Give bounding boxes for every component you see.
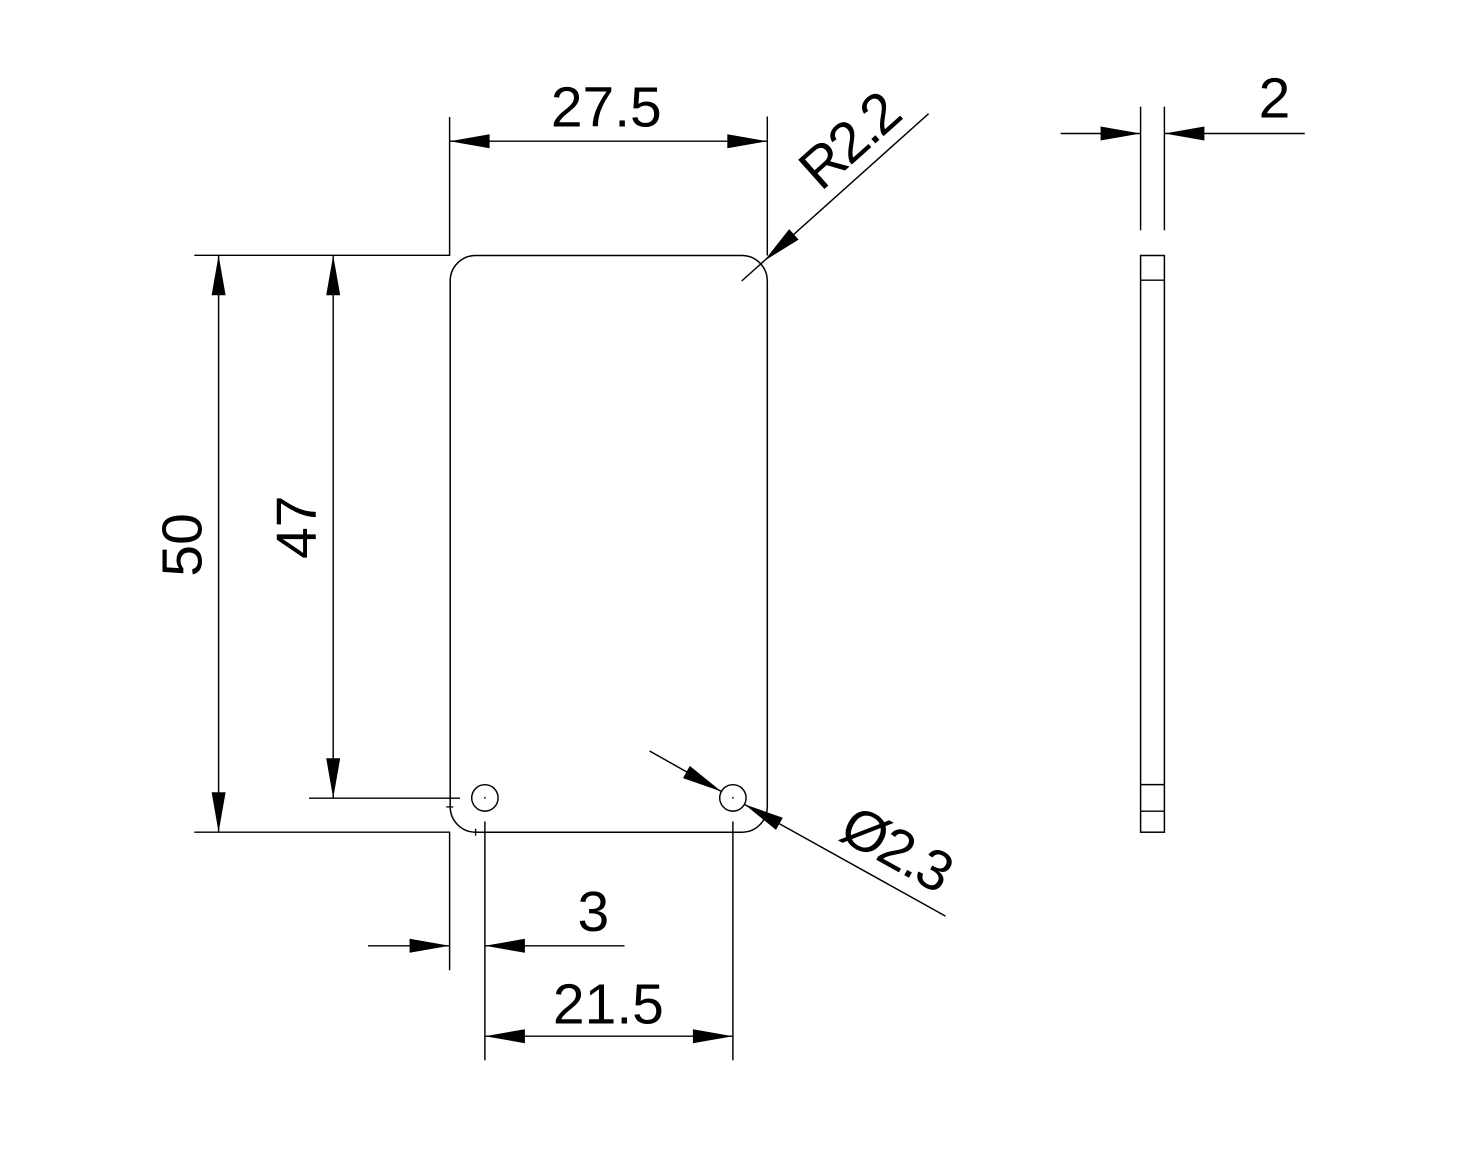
dim Ø2.3 leader upper segment [650, 751, 722, 791]
dim 3 left dimension tail [368, 945, 450, 947]
dim 47 bottom extension line (hole centerline) [309, 797, 460, 799]
dim 27.5 right arrowhead [727, 134, 767, 148]
dim Ø2.3 upper arrowhead [683, 766, 721, 792]
dim 2 left arrowhead [1101, 127, 1141, 141]
dim 50 dimension line [218, 255, 220, 832]
dim 21.5 left arrowhead [485, 1029, 525, 1043]
dim 2 left dimension tail [1061, 133, 1141, 135]
dim 21.5 left extension line (left hole centerline) [484, 822, 486, 1061]
dim 50 top arrowhead [212, 255, 226, 295]
dim 21.5 right extension line (right hole centerline) [732, 822, 734, 1061]
dim 3 left extension line (plate edge) [449, 832, 451, 970]
side view top fillet tangent line [1141, 279, 1165, 281]
svg-text:50: 50 [151, 513, 215, 576]
svg-text:2: 2 [1259, 67, 1291, 131]
dim 2 right arrowhead [1164, 127, 1204, 141]
dim 21.5 dimension line [485, 1035, 733, 1037]
hole left [472, 785, 498, 811]
dim 50 bottom arrowhead [212, 792, 226, 832]
dim R2.2 arrowhead [764, 229, 799, 261]
dim 2 right extension line [1163, 107, 1165, 231]
dim 3 right arrowhead [485, 939, 525, 953]
dim 47 bottom arrowhead [326, 758, 340, 798]
svg-text:21.5: 21.5 [553, 972, 664, 1036]
dim Ø2.3 lower arrowhead [744, 804, 782, 830]
side view outline [1141, 256, 1165, 833]
svg-text:27.5: 27.5 [551, 76, 662, 140]
svg-text:47: 47 [265, 495, 329, 558]
dim 50 bottom extension line [194, 831, 450, 833]
tangent tick on left edge [446, 806, 453, 808]
side view hole bottom silhouette line [1141, 810, 1165, 812]
hole right [720, 785, 746, 811]
tangent tick on bottom edge [475, 829, 477, 836]
front view plate outline [450, 256, 767, 833]
dim 21.5 right arrowhead [693, 1029, 733, 1043]
svg-text:3: 3 [578, 880, 610, 944]
dim 47 top arrowhead [326, 255, 340, 295]
dim 50 top extension line [194, 254, 450, 256]
dim 3 right dimension tail [485, 945, 625, 947]
dim 2 right dimension tail [1164, 133, 1304, 135]
dim 2 left extension line [1140, 107, 1142, 231]
dim R2.2 leader line [742, 114, 929, 281]
dim 27.5 left arrowhead [450, 134, 490, 148]
dim 27.5 right extension line [766, 117, 768, 256]
dim 27.5 dimension line [450, 140, 768, 142]
dim 3 left arrowhead [410, 939, 450, 953]
dim Ø2.3 leader lower segment [744, 804, 945, 916]
side view hole top silhouette line [1141, 784, 1165, 786]
dim 27.5 left extension line [449, 117, 451, 255]
dim 47 dimension line [332, 255, 334, 798]
